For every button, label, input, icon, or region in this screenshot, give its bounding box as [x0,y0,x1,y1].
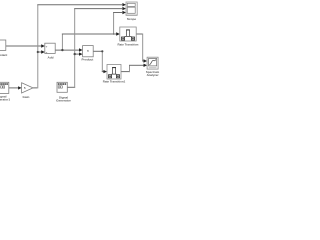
wire Product to Rate Transition1 [93,50,102,52]
svg-text:Generator1: Generator1 [0,98,10,102]
arrow into Product in1 [79,48,83,51]
arrow into Scope in2 [122,7,126,10]
svg-text:Scope: Scope [127,17,137,21]
arrow into Add in2 [41,50,45,53]
Product block [82,46,94,62]
wire Rate Transition to Spectrum Analyzer in1 [136,33,143,35]
svg-text:Constant: Constant [0,53,7,57]
wire Gain out / up to Scope in1 [33,52,42,88]
Gain block (triangle) [22,83,33,99]
Scope block [126,2,137,21]
arrow into Product in2 [79,52,83,55]
svg-text:+: + [46,50,48,54]
arrow into Scope in1 [122,3,126,6]
wire Rate Transition1 to Spectrum Analyzer in2 [121,71,130,73]
wire Constant to Add in1 [6,45,42,47]
svg-text:Rate Transition: Rate Transition [118,43,139,47]
arrow into Gain [18,86,22,89]
svg-text:Add: Add [47,55,53,59]
wire SignalGenerator1 to Gain [9,87,19,89]
Add block [45,43,55,59]
arrowheads [18,3,147,90]
node junction on SG2 vertical for Product in2 [74,53,76,55]
svg-text:Product: Product [82,58,94,62]
node junction on Gain vertical for Add in2 [37,51,39,53]
node junction on RT wire for Scope in3 [113,33,115,35]
svg-text:+: + [46,44,48,48]
node corner dot on Product wire [101,50,103,52]
wire Add out to Product in1 [55,49,79,51]
arrow into Spectrum Analyzer in1 [144,59,148,62]
arrow into Spectrum Analyzer in2 [144,64,148,67]
Spectrum Analyzer block [146,57,160,77]
svg-text:Rate Transition1: Rate Transition1 [103,80,126,84]
svg-text:Analyzer: Analyzer [147,73,160,77]
arrow into Rate Transition [116,32,120,35]
svg-text:×: × [87,49,89,53]
constant block (cut off at left edge) [0,40,7,57]
svg-text:Gain: Gain [22,95,29,99]
arrow into Rate Transition1 [103,70,107,73]
wire branch up to Scope in3 [113,13,115,35]
wire SignalGenerator to Scope in2 [67,86,75,88]
node junction at Add output [61,49,63,51]
Signal Generator block [56,82,72,102]
wire branch to Product in2 [75,53,80,55]
svg-text:Generator: Generator [56,99,72,103]
Signal Generator1 block (cut off at left) [0,82,10,101]
wire Add branch up to Rate Transition in [61,34,63,51]
arrow into Scope in3 [122,11,126,14]
Rate Transition1 block [103,65,126,84]
Rate Transition block [118,27,139,47]
arrow into Add in1 [41,44,45,47]
